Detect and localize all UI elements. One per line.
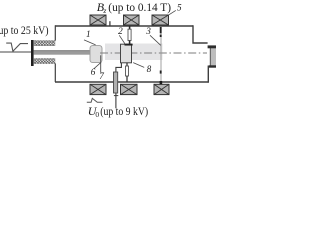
output window assembly (right flange) (210, 47, 216, 67)
svg-text:5: 5 (177, 2, 182, 12)
coil 5a (top-left solenoid section) (90, 15, 106, 25)
chamber top wall (55, 25, 193, 27)
leader line for label 7 (100, 55, 102, 72)
cathode head 1 (90, 46, 102, 63)
svg-text:1: 1 (86, 29, 91, 39)
beam region (light gray band) (105, 44, 163, 61)
svg-text:0: 0 (95, 110, 99, 119)
U0 feedthrough (gray bar) (114, 72, 118, 93)
leader line for label 1 (84, 40, 96, 45)
svg-text:6: 6 (91, 67, 96, 77)
insulator (bottom hatched strip) (34, 59, 55, 64)
insulator (top hatched strip) (34, 41, 55, 46)
chamber left wall upper segment (54, 25, 56, 40)
svg-text:(up to 0.14 T): (up to 0.14 T) (108, 0, 171, 14)
anode support insulator rod (lower) (126, 63, 128, 66)
axis (dash-dot center line) (100, 52, 207, 54)
svg-text:z: z (102, 6, 106, 15)
svg-text:8: 8 (147, 64, 152, 74)
leader line for label 5 (168, 10, 176, 15)
svg-text:up to 25 kV): up to 25 kV) (0, 23, 49, 37)
wire: anode to feedthrough (116, 63, 122, 73)
U0 lead crossbar (114, 95, 118, 97)
coil 5b (top-middle solenoid section) (124, 15, 140, 25)
svg-text:7: 7 (99, 71, 104, 81)
svg-text:2: 2 (118, 26, 123, 36)
anode support insulator rod (upper) (129, 26, 131, 29)
chamber left wall lower segment (54, 63, 56, 82)
HV pulse waveform (negative pulse) (6, 43, 28, 51)
coil 5c (top-right solenoid section) (152, 15, 169, 25)
leader line for label 8 (133, 63, 144, 68)
coil 5d (bottom-left solenoid section) (90, 84, 106, 94)
coil 5e (bottom-middle solenoid section) (121, 84, 138, 94)
cathode shank (gray rod) (34, 51, 91, 55)
grid electrode 3 (thin vertical rod) (160, 27, 162, 83)
chamber bottom wall (55, 81, 209, 83)
wire: top HV feed line (0, 51, 32, 53)
chamber section joint tick (109, 21, 111, 25)
cathode feed end plate (31, 40, 34, 66)
chamber right wall (193, 25, 208, 43)
svg-text:3: 3 (145, 26, 151, 36)
chamber bottom-right step wall (207, 66, 209, 83)
leader line for label 3 (150, 35, 161, 45)
coil 5f (bottom-right solenoid section) (154, 84, 169, 94)
anode 2 (mesh box) (121, 44, 132, 63)
leader line for label 6 (94, 62, 101, 69)
leader line for label 2 (119, 35, 125, 43)
wire: U0 lead (115, 93, 117, 108)
U0 pulse waveform (positive pulse) (87, 98, 103, 102)
svg-text:(up to 9 kV): (up to 9 kV) (100, 104, 148, 118)
